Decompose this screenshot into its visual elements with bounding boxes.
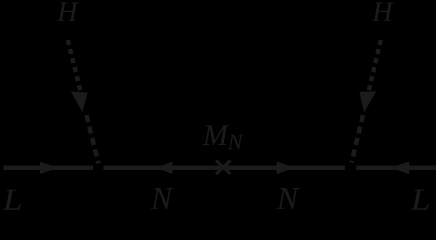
- dashed Higgs line left, lower section: [86, 115, 98, 164]
- dashed Higgs line right, lower section: [352, 115, 363, 163]
- arrow on L line pointing right: [40, 162, 58, 175]
- dashed Higgs line right: [369, 40, 381, 90]
- wire: fermion line middle segment (N propagators): [104, 166, 345, 170]
- arrow on L line pointing left: [390, 162, 409, 175]
- label L right: [411, 190, 429, 210]
- label M_N mass: [203, 125, 230, 145]
- arrowhead on right Higgs line: [359, 91, 376, 112]
- label N right: [277, 188, 300, 209]
- label H right: [372, 2, 394, 20]
- wire: fermion line right segment (L propagator): [356, 166, 436, 170]
- mass insertion cross X (M_N): [216, 160, 231, 174]
- dashed Higgs line left: [68, 40, 81, 90]
- wire: fermion line left segment (L propagator): [4, 166, 94, 170]
- arrow on N line pointing right: [277, 162, 295, 175]
- arrow on N line pointing left: [157, 162, 173, 175]
- label L left: [3, 190, 21, 210]
- arrowhead on left Higgs line: [71, 91, 88, 112]
- label H left: [57, 2, 79, 20]
- label N left: [151, 188, 174, 209]
